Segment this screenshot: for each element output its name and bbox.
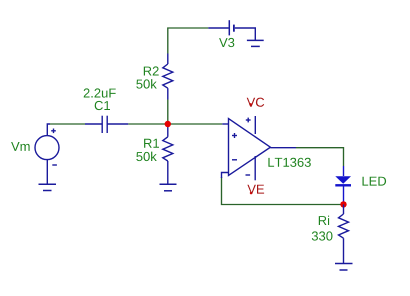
resistor R2 [163, 54, 173, 100]
label R2 [144, 66, 159, 75]
pin dot VE [250, 192, 253, 195]
LED D1 [335, 166, 351, 202]
wire op-amp output to LED [296, 148, 344, 166]
wire C1 to node A [128, 123, 168, 125]
resistor R1 [163, 124, 173, 184]
label LT1363 [268, 158, 310, 167]
ground below Ri [335, 264, 353, 271]
battery V3 [208, 20, 255, 40]
feedback wire from node B to inverting input [222, 177, 344, 205]
value label 330 [312, 231, 333, 240]
label LED [363, 177, 387, 186]
wire Vm to C1 [50, 123, 85, 125]
label Ri [319, 216, 329, 225]
label VE [247, 185, 264, 194]
op-amp U1 LT1363 [222, 116, 270, 180]
ground below R1 [160, 184, 177, 191]
ground top right (V3) [247, 40, 264, 46]
value label 50k (R2) [136, 79, 157, 89]
wire node A up to R2 [167, 100, 169, 125]
output lead of op-amp [270, 147, 296, 149]
node B junction dot [340, 201, 346, 207]
pin dot VC [249, 103, 252, 106]
wire R2 top to battery [168, 28, 209, 54]
voltage source Vm [35, 124, 59, 184]
resistor Ri [339, 204, 349, 263]
label VC [247, 98, 265, 107]
label C1 [95, 101, 110, 110]
label V3 [219, 38, 234, 47]
node A junction dot [165, 121, 171, 127]
ground below Vm [39, 184, 57, 190]
value label 50k (R1) [136, 152, 157, 162]
wire node A to op-amp [168, 123, 223, 125]
label R1 [144, 139, 159, 148]
inverting input stub [222, 173, 229, 179]
capacitor C1 [85, 116, 128, 133]
value label 2.2uF [84, 88, 116, 97]
label Vm [11, 142, 30, 151]
